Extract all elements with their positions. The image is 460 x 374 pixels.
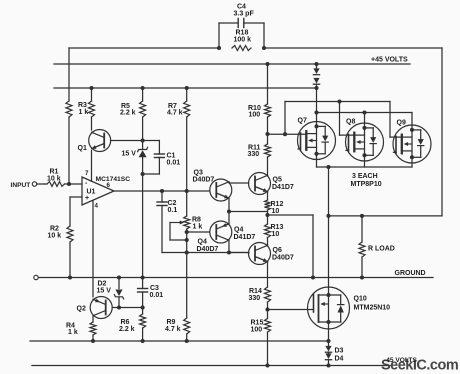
node R9 bottom xyxy=(185,339,189,343)
svg-text:Q7: Q7 xyxy=(298,118,307,125)
svg-text:D41D7: D41D7 xyxy=(234,234,256,241)
node R7 output xyxy=(185,189,189,193)
node R LOAD bottom xyxy=(360,275,364,279)
node D2 top xyxy=(117,275,121,279)
wire -45V rail xyxy=(32,365,390,367)
wire Q7 source riser xyxy=(316,88,318,122)
svg-text:Q10: Q10 xyxy=(354,296,367,303)
transistor Q5 xyxy=(249,173,271,195)
diode D4 xyxy=(325,353,331,359)
resistor R4 xyxy=(92,316,94,322)
node diode top xyxy=(314,62,318,66)
node R10 top xyxy=(265,62,269,66)
svg-text:0.1: 0.1 xyxy=(168,207,178,214)
capacitor C3 xyxy=(142,278,144,289)
wire Q10 gate xyxy=(268,309,314,311)
node R12 R13 junction xyxy=(265,213,269,217)
node Q10 gate xyxy=(265,307,269,311)
resistor R11 xyxy=(267,134,269,144)
resistor R18 xyxy=(232,46,251,51)
svg-text:D40D7: D40D7 xyxy=(197,246,219,253)
resistor R10 xyxy=(267,64,269,104)
svg-text:100: 100 xyxy=(251,327,263,334)
wire gate bus xyxy=(284,102,286,135)
svg-text:INPUT: INPUT xyxy=(11,182,31,189)
node drive line xyxy=(185,250,189,254)
wire Q3 collector to Q5 base xyxy=(229,182,249,183)
node gate drive xyxy=(265,132,269,136)
node Q8 source xyxy=(362,110,366,114)
svg-text:MTM25N10: MTM25N10 xyxy=(354,305,391,312)
svg-text:330: 330 xyxy=(248,151,260,158)
mosfet Q7 xyxy=(298,122,336,160)
svg-text:4: 4 xyxy=(95,203,99,210)
svg-text:C4: C4 xyxy=(237,4,246,11)
node output line xyxy=(326,214,330,218)
capacitor C1 xyxy=(143,140,160,142)
svg-text:D4: D4 xyxy=(335,356,344,363)
mosfet Q9 xyxy=(393,125,431,163)
node R15 bottom xyxy=(265,363,269,367)
svg-text:6: 6 xyxy=(107,182,111,189)
wire Q8 gate xyxy=(339,102,341,136)
wire Q1 base xyxy=(111,140,143,142)
svg-text:-45 VOLTS: -45 VOLTS xyxy=(384,357,417,364)
wire output line xyxy=(329,215,443,217)
svg-text:10: 10 xyxy=(272,208,280,215)
wire pot to R9 xyxy=(186,253,188,319)
resistor R LOAD xyxy=(361,216,363,242)
resistor R14 xyxy=(265,287,271,302)
node Q4 collector xyxy=(227,250,231,254)
wire driver midpoint to ground xyxy=(268,214,314,216)
svg-text:Q2: Q2 xyxy=(77,306,86,313)
wire Q10 source xyxy=(328,329,330,346)
wire feedback left drop xyxy=(68,48,70,101)
wire output drop xyxy=(328,167,330,287)
resistor R15 xyxy=(267,310,269,319)
transistor Q4 xyxy=(210,221,232,243)
wire gate wire Q7 xyxy=(268,133,307,135)
resistor feedback series xyxy=(66,101,72,117)
resistor R2 xyxy=(67,226,73,242)
svg-text:2.2 k: 2.2 k xyxy=(120,110,136,117)
diode D3 xyxy=(325,346,331,352)
svg-text:4.7 k: 4.7 k xyxy=(167,110,183,117)
node pot wiper bottom xyxy=(185,238,189,242)
svg-text:3.3 pF: 3.3 pF xyxy=(234,11,255,18)
svg-text:D40D7: D40D7 xyxy=(193,177,215,184)
wire emitters to R12 junction xyxy=(229,211,268,213)
node Q10 lower rail xyxy=(326,339,330,343)
capacitor C2 xyxy=(161,191,163,202)
wire Q2 base xyxy=(112,307,142,309)
svg-text:R LOAD: R LOAD xyxy=(368,246,395,253)
node Q8 gate riser xyxy=(337,99,341,103)
svg-text:Q8: Q8 xyxy=(346,119,355,126)
wire Q4 base xyxy=(187,231,210,233)
svg-text:C1: C1 xyxy=(167,153,176,160)
node driver emitters xyxy=(227,209,231,213)
svg-text:0.01: 0.01 xyxy=(167,160,181,167)
svg-text:Q4: Q4 xyxy=(198,239,207,246)
wire Q5 collector xyxy=(267,157,269,175)
wire pot top xyxy=(186,191,188,216)
svg-text:Q6: Q6 xyxy=(273,247,282,254)
resistor R12 xyxy=(265,200,271,210)
diode pair top xyxy=(316,64,318,68)
wire C2 to drive line xyxy=(162,252,249,254)
svg-text:Q3: Q3 xyxy=(194,170,203,177)
node source bus Q7 xyxy=(314,110,318,114)
terminal INPUT xyxy=(32,182,36,186)
wire feedback right drop xyxy=(441,48,443,216)
node R6 bottom xyxy=(141,339,145,343)
node D4 bottom xyxy=(326,363,330,367)
svg-text:2.2 k: 2.2 k xyxy=(119,326,135,333)
wire lower rail xyxy=(30,340,329,342)
zener D1 xyxy=(142,141,144,150)
node gate riser xyxy=(283,132,287,136)
svg-text:Q5: Q5 xyxy=(273,177,282,184)
wire Q9 drain xyxy=(411,163,413,167)
svg-text:1 k: 1 k xyxy=(79,109,89,116)
zener D2 xyxy=(118,278,120,289)
svg-text:C2: C2 xyxy=(168,200,177,207)
node D1 top xyxy=(141,138,145,142)
node D2 bottom xyxy=(117,305,121,309)
node Q4 base tee xyxy=(185,230,189,234)
terminal ground xyxy=(34,275,38,279)
svg-text:R2: R2 xyxy=(50,226,59,233)
transistor Q6 xyxy=(249,243,271,265)
node R2 ground xyxy=(68,275,72,279)
resistor R1 xyxy=(47,182,65,187)
svg-text:D3: D3 xyxy=(335,348,344,355)
svg-text:R8: R8 xyxy=(192,217,201,224)
node C3 bottom xyxy=(141,305,145,309)
wire Q4 collector xyxy=(228,240,230,252)
svg-text:D41D7: D41D7 xyxy=(272,184,294,191)
svg-text:R6: R6 xyxy=(121,319,130,326)
node R3 top xyxy=(89,86,93,90)
svg-text:100 k: 100 k xyxy=(234,37,252,44)
capacitor C4 xyxy=(218,23,220,48)
node R4 bottom xyxy=(91,339,95,343)
svg-text:Q1: Q1 xyxy=(78,145,87,152)
wire pin7 xyxy=(91,151,93,182)
node diode bottom xyxy=(314,86,318,90)
svg-text:D40D7: D40D7 xyxy=(272,254,294,261)
wire Q8 drain xyxy=(364,161,366,167)
svg-text:R3: R3 xyxy=(78,102,87,109)
node drain bus xyxy=(326,165,330,169)
node R LOAD top xyxy=(360,214,364,218)
node R7 top xyxy=(185,86,189,90)
svg-text:C3: C3 xyxy=(150,285,159,292)
svg-text:10: 10 xyxy=(272,231,280,238)
wire op-amp output xyxy=(114,190,210,192)
svg-text:+: + xyxy=(85,195,89,202)
svg-text:Q4: Q4 xyxy=(234,227,243,234)
mosfet Q10 xyxy=(308,287,350,329)
svg-text:R9: R9 xyxy=(167,319,176,326)
svg-text:R12: R12 xyxy=(271,201,284,208)
wire Q8 source riser xyxy=(364,113,366,124)
node D1 bottom xyxy=(141,172,145,176)
svg-text:7: 7 xyxy=(85,170,89,177)
transistor Q1 xyxy=(89,130,111,152)
node C3 top xyxy=(141,275,145,279)
wire Q9 source riser xyxy=(411,113,413,126)
node inverting input xyxy=(67,182,71,186)
op-amp U1 xyxy=(82,177,114,205)
svg-text:10 k: 10 k xyxy=(47,176,61,183)
wire ground line xyxy=(38,277,433,279)
svg-text:+45 VOLTS: +45 VOLTS xyxy=(371,57,408,64)
wire Q5 emitter xyxy=(267,192,269,200)
transistor Q3 xyxy=(210,179,232,201)
svg-text:Q9: Q9 xyxy=(397,120,406,127)
wire Q4 emitter xyxy=(228,212,230,224)
wire Q6 base xyxy=(229,252,249,254)
wire Q9 gate xyxy=(389,102,391,138)
wire +45V rail xyxy=(54,63,410,65)
svg-text:MC1741SC: MC1741SC xyxy=(96,176,131,183)
wire Q3 emitter xyxy=(228,198,230,211)
resistor R6 xyxy=(142,308,144,315)
svg-text:D2: D2 xyxy=(98,281,107,288)
svg-text:15 V: 15 V xyxy=(97,288,112,295)
wire feedback top rail xyxy=(69,47,219,49)
svg-text:R13: R13 xyxy=(271,224,284,231)
svg-text:4.7 k: 4.7 k xyxy=(165,326,181,333)
node R5 top xyxy=(141,86,145,90)
svg-text:10 k: 10 k xyxy=(48,233,62,240)
mosfet Q8 xyxy=(346,123,384,161)
wire D1 to ground xyxy=(142,174,144,276)
wire source bus xyxy=(317,112,413,114)
node C2 top xyxy=(160,189,164,193)
node C4 left xyxy=(217,46,221,50)
svg-text:1 k: 1 k xyxy=(193,224,203,231)
svg-text:330: 330 xyxy=(249,295,261,302)
resistor R13 xyxy=(267,215,269,224)
wire Q6 collector xyxy=(267,238,269,246)
wire pin4 xyxy=(92,201,94,297)
svg-text:R18: R18 xyxy=(236,30,249,37)
svg-text:R15: R15 xyxy=(251,320,264,327)
wire Q7 drain xyxy=(316,160,318,168)
svg-text:1 k: 1 k xyxy=(68,329,78,336)
svg-text:100: 100 xyxy=(249,112,261,119)
resistor R9 xyxy=(184,318,190,334)
wire noninverting input xyxy=(70,196,82,198)
svg-text:R14: R14 xyxy=(249,288,262,295)
potentiometer R8 xyxy=(184,216,190,229)
resistor R7 xyxy=(186,88,188,101)
svg-text:15 V: 15 V xyxy=(122,151,137,158)
wire Q6 emitter xyxy=(267,262,269,287)
svg-text:0.01: 0.01 xyxy=(150,292,164,299)
svg-text:MTP8P10: MTP8P10 xyxy=(351,181,382,188)
resistor R5 xyxy=(142,88,144,101)
wire bias line xyxy=(54,87,317,89)
svg-text:R1: R1 xyxy=(50,169,59,176)
transistor Q2 xyxy=(90,297,112,319)
node midpoint ground xyxy=(311,275,315,279)
svg-text:GROUND: GROUND xyxy=(395,270,426,277)
resistor R3 xyxy=(89,101,95,117)
svg-text:3 EACH: 3 EACH xyxy=(352,173,378,180)
node C4 right xyxy=(262,46,266,50)
svg-text:U1: U1 xyxy=(87,189,96,196)
wire drain bus xyxy=(317,166,413,168)
